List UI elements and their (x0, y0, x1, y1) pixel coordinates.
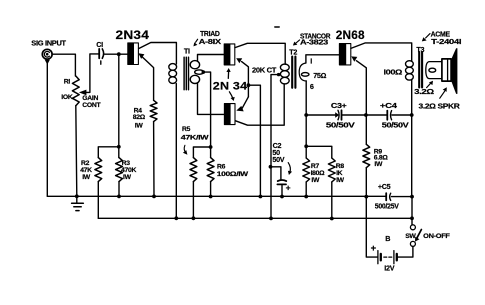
wire C3/C4 node line (306, 114, 412, 116)
svg-text:+C5: +C5 (378, 182, 391, 191)
svg-text:A-8IX: A-8IX (199, 37, 222, 46)
transformer T3 core (419, 52, 422, 88)
svg-text:6: 6 (310, 82, 314, 91)
junction R7/R8 bracket (304, 144, 308, 148)
junction C3 left node (304, 113, 308, 117)
svg-text:470K: 470K (121, 167, 136, 174)
wire R5 bottom to supply bus (192, 182, 194, 219)
resistor R2 47K (95, 158, 102, 182)
wire 2N68 emitter down through C3/C4 node to R9 (356, 61, 366, 145)
wire T1 secondary bottom to 2N34 base (bottom) (198, 83, 225, 115)
transformer T3 secondary loop (426, 62, 442, 79)
arrow to 3.2 ohm secondary (427, 83, 431, 87)
svg-text:100Ω/IW: 100Ω/IW (217, 171, 249, 178)
ground symbol (76, 196, 78, 202)
resistor R7 180ohm (303, 158, 310, 182)
arrow to STANCOR label (296, 40, 300, 44)
svg-text:I80Ω: I80Ω (311, 170, 326, 177)
wire R3 bottom to ground bus (118, 182, 120, 197)
resistor R3 470K (116, 158, 123, 182)
svg-text:RI: RI (64, 78, 71, 85)
svg-text:2N 34: 2N 34 (213, 81, 248, 93)
transformer T1 secondary winding (190, 61, 199, 69)
svg-text:2N68: 2N68 (336, 28, 365, 42)
svg-text:82Ω: 82Ω (133, 114, 146, 121)
svg-text:+: + (371, 243, 377, 254)
resistor R6 100ohm/1W (207, 158, 214, 182)
capacitor C3 (338, 110, 339, 120)
svg-text:IW: IW (82, 174, 91, 181)
svg-text:IW: IW (311, 177, 320, 184)
wire T1 secondary top to 2N34 base (top) (198, 55, 224, 62)
svg-text:2N34: 2N34 (116, 28, 150, 42)
svg-text:T2: T2 (289, 48, 297, 57)
svg-text:47K/IW: 47K/IW (181, 135, 210, 142)
svg-text:R3: R3 (122, 160, 131, 167)
wire T2 secondary bottom to R7/R8 bracket (305, 81, 307, 146)
svg-text:+: + (286, 182, 291, 192)
transistor Q2 2N34 push-pull top (224, 44, 235, 65)
wire T3 primary bottom down to supply node (411, 80, 413, 225)
wire R2/R3 top bracket (98, 147, 119, 158)
junction push-pull emitters (247, 83, 251, 87)
arrow to TRIAD label (196, 39, 198, 42)
svg-text:IK: IK (336, 170, 343, 177)
transformer T1 primary winding (169, 64, 177, 71)
capacitor C2 bottom lead (281, 185, 283, 197)
junction ground at R4 (152, 195, 156, 199)
R1 wiper arrow (85, 91, 86, 93)
switch SW blade (417, 230, 422, 239)
svg-text:SW: SW (405, 233, 416, 240)
wire T1 primary bottom to supply bus (175, 84, 177, 219)
svg-text:IW: IW (374, 161, 383, 168)
wire R2 bottom to lower supply bus (97, 182, 99, 219)
speaker 3.2ohm SPKR (442, 59, 451, 81)
junction ground at R7 (304, 195, 308, 199)
svg-text:ON-OFF: ON-OFF (423, 233, 450, 240)
wire R4 bottom to ground bus (153, 122, 155, 197)
capacitor C5 (in ground bus) (385, 193, 387, 200)
junction Q1 base node (117, 52, 121, 56)
input jack J1 (42, 49, 52, 59)
wire T2 center tap to supply bus (271, 75, 278, 219)
svg-text:IW: IW (135, 123, 144, 130)
switch SW circles (410, 225, 415, 230)
arrow 2N34 label up (227, 72, 229, 79)
svg-text:3.2Ω: 3.2Ω (414, 87, 434, 96)
svg-text:50/50V: 50/50V (326, 120, 355, 129)
wire 2N34 emitter to R4 (143, 57, 154, 100)
wire 2N34 collector to T1 primary (139, 43, 177, 65)
wire 2N68 collector to T3 primary (351, 43, 412, 61)
resistor R4 82ohm (150, 100, 157, 121)
wire top 2N34 collector to T2 primary (235, 43, 285, 64)
svg-text:IW: IW (336, 177, 345, 184)
junction C3/C4 emitter node (364, 113, 368, 117)
wire R1 wiper to C1 (85, 54, 98, 93)
svg-text:R2: R2 (81, 160, 90, 167)
ground bus (47, 195, 412, 197)
transformer T2 center-tap dot (277, 73, 280, 76)
junction C5 right node (410, 195, 414, 199)
svg-text:3.2Ω SPKR: 3.2Ω SPKR (419, 101, 461, 110)
wire bottom 2N34 collector to T2 primary bottom (235, 84, 284, 125)
svg-text:T3: T3 (416, 45, 424, 54)
svg-text:75Ω: 75Ω (313, 71, 326, 80)
arrow to R5 (184, 145, 185, 152)
transformer T2 core (292, 57, 295, 88)
wire T1 center tap to R5/R6 bracket (203, 72, 210, 147)
wire switch to battery negative (397, 246, 413, 257)
junction ground at R1 (75, 194, 79, 198)
svg-text:B: B (385, 234, 390, 243)
wire R6 bottom to ground bus (210, 182, 212, 197)
resistor R5 47K/1W (190, 158, 197, 182)
junction supply bus at T2 CT (269, 217, 273, 221)
svg-text:CI: CI (96, 40, 103, 49)
resistor R9 6.8ohm (363, 144, 370, 167)
junction ground at R6 (209, 195, 213, 199)
capacitor C1 (98, 49, 100, 58)
junction R2/R3 bracket (117, 145, 121, 149)
svg-text:I: I (310, 56, 312, 65)
junction R5/R6 bracket (209, 145, 213, 149)
svg-text:SIG INPUT: SIG INPUT (31, 39, 66, 48)
svg-text:C3+: C3+ (331, 101, 347, 110)
junction ground at C2 (280, 195, 284, 199)
svg-text:47K: 47K (80, 167, 92, 174)
arrow to SPKR (440, 91, 445, 98)
junction supply bus at R5 (192, 216, 196, 220)
svg-text:TI: TI (184, 46, 190, 55)
arrow to ACME label (426, 34, 430, 38)
wire T2 secondary top to 2N68 base (306, 55, 340, 63)
svg-text:GAIN: GAIN (82, 95, 98, 102)
svg-text:CONT: CONT (82, 102, 101, 109)
junction C2 tap on supply line (269, 165, 273, 169)
svg-text:T-2404I: T-2404I (431, 37, 461, 46)
wire top 2N34 emitter down (242, 62, 249, 97)
transformer T2 primary winding (280, 64, 289, 71)
svg-text:500/25V: 500/25V (375, 202, 399, 211)
junction supply bus at switch (410, 216, 414, 220)
wire jack sleeve down left side (46, 62, 48, 196)
svg-text:20K CT: 20K CT (252, 65, 277, 74)
battery B plates (377, 251, 379, 264)
wire bottom 2N34 emitter up (242, 97, 248, 108)
wire R7 bottom to ground bus (305, 182, 307, 197)
transformer T1 core (184, 57, 188, 90)
wire battery positive lead (366, 197, 377, 258)
arrow 50V to C2 (288, 163, 290, 172)
wire jack to R1 top (52, 54, 75, 76)
svg-text:IOK: IOK (61, 94, 73, 101)
transistor Q1 2N34 driver (128, 43, 139, 65)
wire R1 bottom to ground bus (76, 106, 77, 197)
svg-text:I00Ω: I00Ω (384, 68, 403, 77)
transformer T1 center-tap loop (195, 70, 204, 74)
resistor R1 (10K gain control pot) (72, 76, 79, 106)
capacitor C2 top lead from supply jog (271, 167, 281, 180)
transistor Q4 2N68 output (339, 44, 350, 65)
junction ground at R3 (117, 195, 121, 199)
wire emitters junction to ground bus (248, 85, 260, 196)
transformer T3 primary winding (406, 61, 414, 67)
wire R7/R8 top bracket (306, 146, 332, 158)
lower supply bus (98, 217, 412, 219)
junction supply bus at R8 (330, 217, 334, 221)
svg-text:IW: IW (123, 174, 132, 181)
wire C1 to 2N34 base (105, 53, 128, 55)
junction supply bus at T1 (174, 216, 178, 220)
wire R5/R6 top bracket (193, 147, 210, 158)
svg-text:+C4: +C4 (380, 101, 397, 110)
svg-text:50V: 50V (272, 155, 284, 164)
wire R8 bottom to supply bus (331, 182, 333, 219)
svg-text:I2V: I2V (384, 264, 394, 273)
junction T1 center tap (202, 70, 206, 74)
wire base node down to R2/R3 bracket (118, 54, 120, 147)
wire R9 bottom to ground bus (365, 168, 367, 197)
arrow 2N34 label down (229, 92, 232, 98)
stray scan dash (275, 26, 279, 28)
junction ground at R9/battery (364, 195, 368, 199)
junction C4 right node (410, 113, 414, 117)
resistor R8 1K (328, 158, 335, 182)
svg-text:50/50V: 50/50V (382, 121, 409, 130)
transformer T2 secondary loop (299, 63, 306, 81)
transistor Q3 2N34 push-pull bottom (224, 104, 235, 125)
capacitor C4 (386, 111, 388, 120)
svg-text:R6: R6 (217, 163, 226, 170)
junction ground at emitter line (259, 195, 263, 199)
capacitor C2 plates (278, 180, 287, 181)
svg-text:A-3823: A-3823 (300, 38, 328, 47)
svg-text:R5: R5 (182, 126, 191, 133)
